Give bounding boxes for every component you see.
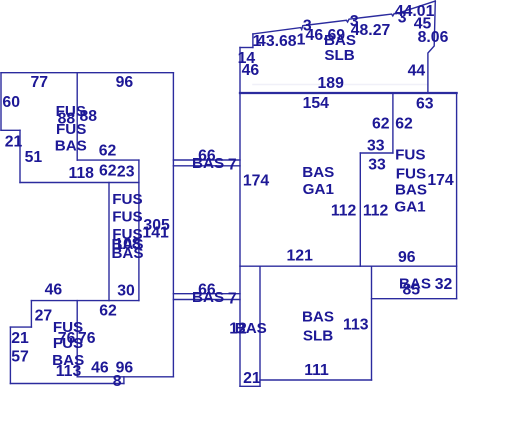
wall divider step h [360, 152, 393, 154]
svg-text:60: 60 [2, 94, 20, 111]
svg-text:63: 63 [416, 95, 434, 112]
svg-text:51: 51 [25, 149, 43, 166]
svg-text:33: 33 [367, 138, 385, 155]
svg-text:21: 21 [11, 330, 29, 347]
svg-text:62: 62 [99, 303, 117, 320]
svg-text:118: 118 [68, 165, 94, 182]
wall roof faint bottom edge [253, 84, 428, 86]
wall bottom step v [123, 377, 125, 384]
svg-text:FUS: FUS [53, 335, 83, 352]
wall left building left edge upper [0, 73, 2, 131]
wall middle section bottom edge [240, 265, 457, 267]
wall lower-left step v1 [30, 301, 32, 328]
svg-text:27: 27 [35, 307, 53, 324]
svg-text:46: 46 [242, 62, 260, 79]
wall right building right edge [456, 93, 458, 299]
svg-text:96: 96 [116, 74, 134, 91]
svg-text:62: 62 [99, 143, 117, 160]
wall bottom edge A [77, 376, 173, 378]
svg-text:46: 46 [91, 360, 109, 377]
svg-text:FUS: FUS [112, 191, 142, 208]
svg-text:FUS: FUS [56, 121, 86, 138]
wall roof right edge with jog [428, 1, 435, 93]
wall corridor1 top wall [173, 159, 240, 161]
svg-text:33: 33 [368, 156, 386, 173]
wall right building left edge [239, 48, 241, 387]
wall middle section top edge [240, 92, 457, 94]
wall left step v [19, 130, 21, 182]
svg-text:SLB: SLB [303, 327, 333, 344]
svg-text:48.27: 48.27 [351, 22, 391, 39]
wall bas32 box bottom [372, 298, 457, 300]
svg-text:8: 8 [113, 373, 122, 390]
svg-text:174: 174 [243, 173, 270, 190]
svg-text:111: 111 [304, 362, 329, 379]
svg-text:112: 112 [331, 203, 357, 220]
wall lower divider v x77 [76, 301, 78, 377]
svg-text:8.06: 8.06 [418, 29, 449, 46]
wall lower-left left edge [9, 327, 11, 383]
svg-text:GA1: GA1 [394, 199, 426, 216]
svg-text:BAS: BAS [395, 182, 427, 199]
svg-text:BAS: BAS [192, 155, 224, 172]
svg-text:57: 57 [11, 349, 29, 366]
svg-text:44: 44 [408, 63, 426, 80]
svg-text:21: 21 [243, 370, 261, 387]
wall left building top edge [1, 72, 173, 74]
svg-text:32: 32 [435, 276, 453, 293]
wall left step h [1, 129, 20, 131]
wall corridor2 bottom wall [173, 299, 240, 301]
svg-text:121: 121 [287, 247, 314, 264]
svg-text:BAS: BAS [235, 320, 267, 337]
wall divider A vertical [392, 93, 394, 153]
wall band bottom y182 [20, 182, 139, 184]
wall roof slanted top edge with jogs [253, 1, 435, 34]
wall lower-left top edge [31, 300, 138, 302]
svg-text:FUS: FUS [395, 147, 425, 164]
svg-text:BAS: BAS [192, 289, 224, 306]
wall left building right edge [172, 73, 174, 377]
wall slb room bottom [260, 379, 372, 381]
svg-text:174: 174 [427, 172, 454, 189]
wall fus column left edge [108, 183, 110, 301]
svg-text:62: 62 [395, 116, 413, 133]
svg-text:21: 21 [5, 133, 23, 150]
wall band top y160 [77, 159, 139, 161]
svg-text:77: 77 [31, 74, 49, 91]
svg-text:154: 154 [303, 95, 330, 112]
svg-text:23: 23 [117, 164, 135, 181]
wall divider 77/96 rooms [76, 73, 78, 160]
svg-text:46: 46 [45, 282, 63, 299]
svg-text:GA1: GA1 [303, 181, 335, 198]
svg-text:BAS: BAS [111, 245, 143, 262]
svg-text:113: 113 [56, 363, 82, 380]
wall strip divider vertical [259, 266, 261, 386]
svg-text:FUS: FUS [396, 165, 426, 182]
svg-text:BAS: BAS [302, 164, 334, 181]
wall lower-left step h [10, 326, 31, 328]
wall divider B vertical [359, 153, 361, 266]
svg-text:43.68: 43.68 [257, 33, 297, 50]
wall strip box bottom [240, 385, 260, 387]
svg-text:7: 7 [228, 156, 237, 173]
svg-text:62: 62 [372, 116, 390, 133]
svg-text:FUS: FUS [112, 209, 142, 226]
svg-text:141: 141 [142, 224, 169, 241]
svg-text:112: 112 [363, 203, 389, 220]
svg-text:189: 189 [318, 75, 345, 92]
svg-text:62: 62 [99, 162, 117, 179]
svg-text:1: 1 [253, 33, 262, 50]
wall lower-left bottom edge B [10, 383, 124, 385]
wall corridor1 bottom wall [173, 165, 240, 167]
svg-text:96: 96 [398, 249, 416, 266]
wall corridor2 top wall [173, 293, 240, 295]
svg-text:BAS: BAS [302, 309, 334, 326]
svg-text:SLB: SLB [324, 47, 354, 64]
svg-text:30: 30 [117, 282, 135, 299]
wall roof step v [252, 34, 254, 48]
svg-text:7: 7 [228, 290, 237, 307]
svg-text:BAS: BAS [55, 137, 87, 154]
svg-text:113: 113 [343, 316, 369, 333]
wall fus column right edge [138, 160, 140, 301]
wall slb room right edge [371, 266, 373, 380]
wall roof step h [240, 47, 253, 49]
svg-text:85: 85 [403, 282, 421, 299]
